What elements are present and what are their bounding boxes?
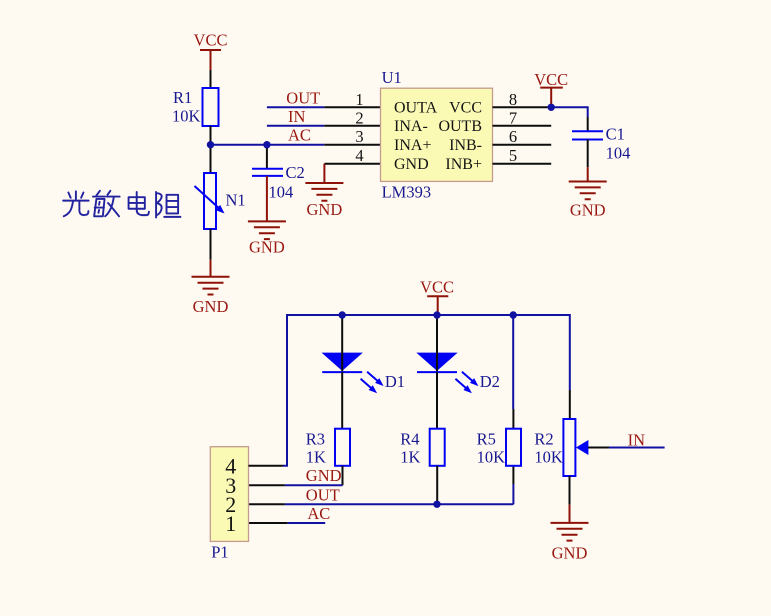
svg-text:2: 2: [355, 108, 363, 127]
resistor R5 10K: [477, 315, 521, 467]
svg-text:R5: R5: [477, 430, 496, 449]
node junction R1/N1/AC: [207, 141, 214, 148]
pin 6: [493, 127, 552, 146]
svg-text:GND: GND: [249, 237, 285, 256]
svg-text:10K: 10K: [534, 448, 563, 467]
pin 5: [493, 146, 552, 165]
photoresistor N1: [195, 145, 246, 229]
wire net AC (P1 pin1): [249, 504, 331, 523]
svg-text:INB-: INB-: [449, 137, 482, 154]
svg-text:GND: GND: [552, 543, 588, 562]
resistor R3 1K: [306, 429, 350, 467]
power VCC bottom: [420, 278, 454, 316]
svg-text:OUTB: OUTB: [438, 118, 482, 135]
svg-text:R4: R4: [400, 430, 419, 449]
svg-text:INB+: INB+: [445, 156, 482, 173]
svg-text:D1: D1: [385, 372, 405, 391]
svg-text:3: 3: [355, 127, 363, 146]
svg-text:N1: N1: [226, 191, 246, 210]
ground GND (N1): [192, 277, 230, 316]
label 光敏电阻 (photoresistor): [63, 191, 180, 218]
capacitor C2 104: [252, 148, 305, 222]
wire R4 to OUT net: [436, 466, 438, 505]
svg-text:GND: GND: [306, 466, 342, 485]
capacitor C1 104: [572, 124, 630, 181]
svg-text:4: 4: [355, 146, 363, 165]
svg-text:104: 104: [269, 183, 294, 202]
LED D2: [416, 315, 500, 393]
svg-text:IN: IN: [288, 107, 305, 126]
svg-text:GND: GND: [307, 200, 343, 219]
svg-text:AC: AC: [307, 504, 330, 523]
node junction C2: [263, 141, 270, 148]
wire VCC node to C1: [551, 107, 588, 117]
svg-text:R1: R1: [173, 88, 192, 107]
svg-text:D2: D2: [480, 372, 500, 391]
resistor R1 10K: [172, 88, 219, 126]
wire R1 to node: [210, 126, 212, 145]
svg-text:5: 5: [509, 146, 517, 165]
wire net GND (P1 pin3): [249, 466, 343, 485]
pin 7: [493, 108, 552, 127]
wire net IN: [267, 107, 324, 126]
resistor R4 1K: [400, 429, 444, 467]
svg-text:U1: U1: [382, 68, 402, 87]
svg-text:1: 1: [225, 511, 236, 536]
svg-text:VCC: VCC: [420, 278, 454, 297]
ground GND (pin 4): [305, 183, 343, 219]
svg-text:R3: R3: [306, 430, 325, 449]
wire R2 to ground: [569, 476, 571, 523]
potentiometer R2 10K: [534, 390, 588, 476]
svg-text:VCC: VCC: [534, 70, 568, 89]
svg-text:GND: GND: [193, 297, 229, 316]
svg-text:GND: GND: [570, 200, 606, 219]
svg-text:C1: C1: [606, 124, 625, 143]
wire VCC to R1: [210, 70, 212, 88]
svg-text:1K: 1K: [306, 448, 326, 467]
svg-text:7: 7: [509, 108, 517, 127]
svg-text:LM393: LM393: [382, 183, 432, 202]
svg-text:8: 8: [509, 90, 517, 109]
wire pin4 to ground: [323, 164, 325, 183]
svg-text:IN: IN: [628, 431, 645, 450]
svg-text:P1: P1: [211, 543, 228, 562]
svg-text:OUTA: OUTA: [394, 100, 438, 117]
node junction R5 rail: [510, 311, 517, 318]
wire D1 to R3: [341, 372, 343, 429]
svg-text:1K: 1K: [400, 448, 420, 467]
svg-text:10K: 10K: [172, 107, 201, 126]
svg-text:GND: GND: [394, 156, 429, 173]
ground GND (C2): [248, 221, 286, 256]
power VCC top-left: [194, 31, 228, 70]
wire AC net horizontal: [211, 144, 325, 146]
svg-text:OUT: OUT: [286, 88, 320, 107]
wire net OUT: [267, 88, 324, 107]
op-amp U1 LM393: [381, 68, 493, 202]
svg-text:AC: AC: [288, 126, 311, 145]
svg-text:R2: R2: [534, 430, 553, 449]
pin 2: [324, 108, 380, 127]
power VCC (pin 8): [534, 70, 568, 107]
svg-text:10K: 10K: [477, 448, 506, 467]
connector P1: [210, 447, 248, 562]
pin 4: [324, 146, 380, 165]
pin 1: [324, 90, 380, 109]
node junction R4/OUT: [433, 501, 440, 508]
svg-text:VCC: VCC: [194, 31, 228, 50]
pin 3: [324, 127, 380, 146]
svg-text:104: 104: [606, 143, 631, 162]
ground GND (C1): [569, 182, 607, 220]
LED D1: [322, 315, 406, 393]
svg-text:1: 1: [355, 90, 363, 109]
wire net OUT (P1 pin2): [249, 485, 514, 504]
wire D2 to R4: [436, 372, 438, 429]
wire R3 to GND net: [342, 466, 344, 486]
svg-text:6: 6: [509, 127, 517, 146]
wire wiper to IN: [588, 431, 665, 450]
wire N1 to ground: [210, 229, 212, 260]
svg-text:OUT: OUT: [306, 485, 340, 504]
svg-text:VCC: VCC: [449, 100, 482, 117]
svg-text:INA+: INA+: [394, 137, 431, 154]
ground GND (R2): [551, 523, 589, 563]
node junction D1 rail: [339, 311, 346, 318]
wire OUT to R5: [512, 466, 514, 505]
svg-text:INA-: INA-: [394, 118, 428, 135]
node junction VCC rail: [433, 311, 440, 318]
pin P1-4: [249, 465, 284, 467]
pin 8: [493, 90, 552, 109]
node junction pin8/VCC: [548, 104, 555, 111]
wire VCC rail: [283, 315, 570, 466]
svg-text:C2: C2: [286, 163, 305, 182]
